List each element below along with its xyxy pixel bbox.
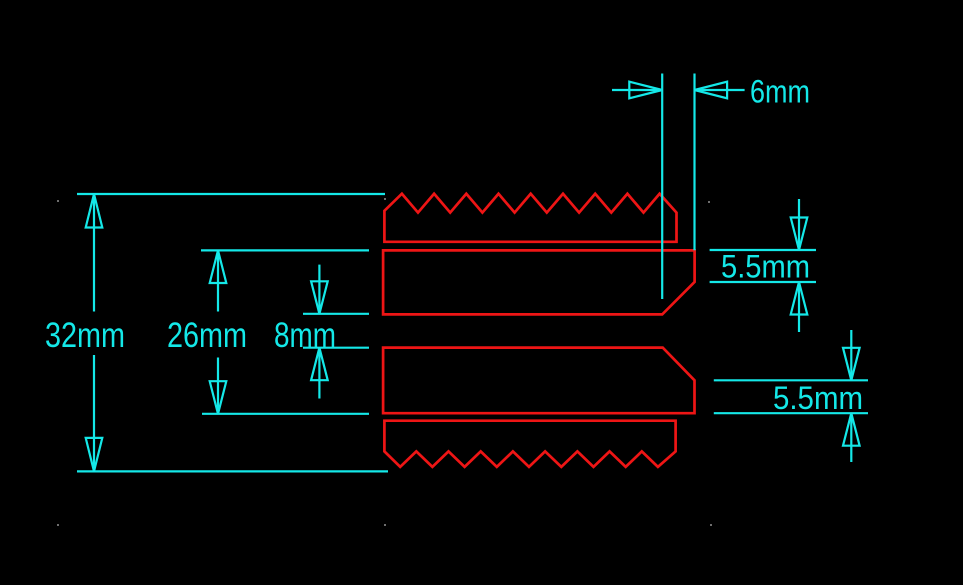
dim 5.5mm lower: top dimension line xyxy=(714,379,868,381)
dim 6mm: right extension line xyxy=(693,74,695,251)
svg-text:6mm: 6mm xyxy=(750,74,810,110)
dim 8mm: upper leader tail xyxy=(318,265,320,314)
part outline: bottom knurled plate xyxy=(384,421,675,467)
dim 32mm: bottom extension line xyxy=(77,470,388,472)
dim 26mm: bottom extension line xyxy=(202,413,369,415)
dim 8mm: lower arrowhead xyxy=(311,348,328,381)
dim 6mm: left leader tail xyxy=(612,89,662,91)
svg-text:32mm: 32mm xyxy=(45,316,125,355)
part outline: upper jaw plate (chamfered bottom-right) xyxy=(383,250,694,314)
svg-text:8mm: 8mm xyxy=(274,316,336,355)
dim 32mm: lower arrowhead xyxy=(86,438,103,472)
part outline: top knurled plate xyxy=(384,194,676,242)
dim 5.5mm lower: bottom arrowhead xyxy=(843,413,860,446)
grid dot row1 xyxy=(57,198,712,526)
dim 26mm: top extension line xyxy=(201,249,369,251)
dim 32mm: top extension line xyxy=(77,193,385,195)
svg-text:26mm: 26mm xyxy=(167,316,247,355)
dim 5.5mm upper: top leader tail xyxy=(798,199,800,250)
dim 32mm: dimension line lower segment xyxy=(93,355,95,471)
dim 8mm: bottom dimension line xyxy=(303,347,369,349)
dim 8mm: upper arrowhead xyxy=(311,281,328,314)
dim 5.5mm lower: top arrowhead xyxy=(843,348,860,381)
dim 6mm: right leader tail xyxy=(695,89,745,91)
part outline: lower jaw plate (chamfered top-right) xyxy=(383,348,694,414)
dim 5.5mm lower: bottom dimension line xyxy=(714,412,868,414)
dim 5.5mm lower: bottom leader tail xyxy=(850,413,852,462)
dim 5.5mm upper: bottom arrowhead xyxy=(791,282,808,315)
dim 5.5mm upper: top dimension line xyxy=(710,249,816,251)
svg-text:5.5mm: 5.5mm xyxy=(773,380,863,416)
dim 26mm: dimension line lower segment xyxy=(217,358,219,414)
dim 5.5mm lower: top leader tail xyxy=(850,330,852,380)
svg-text:5.5mm: 5.5mm xyxy=(721,248,810,284)
dim 26mm: lower arrowhead xyxy=(210,381,227,414)
dim 5.5mm upper: bottom leader tail xyxy=(798,282,800,332)
dim 6mm: right arrowhead xyxy=(695,82,728,99)
dim 26mm: dimension line upper segment xyxy=(217,250,219,311)
dim 32mm: upper arrowhead xyxy=(86,194,103,228)
dim 5.5mm upper: bottom dimension line xyxy=(710,281,816,283)
dim 8mm: top dimension line xyxy=(303,313,369,315)
dim 6mm: left extension line xyxy=(661,74,663,300)
dim 5.5mm upper: top arrowhead xyxy=(791,218,808,251)
dim 6mm: left arrowhead xyxy=(629,82,662,99)
dim 8mm: lower leader tail xyxy=(318,348,320,399)
dim 32mm: dimension line upper segment xyxy=(93,194,95,312)
dim 26mm: upper arrowhead xyxy=(210,250,227,283)
